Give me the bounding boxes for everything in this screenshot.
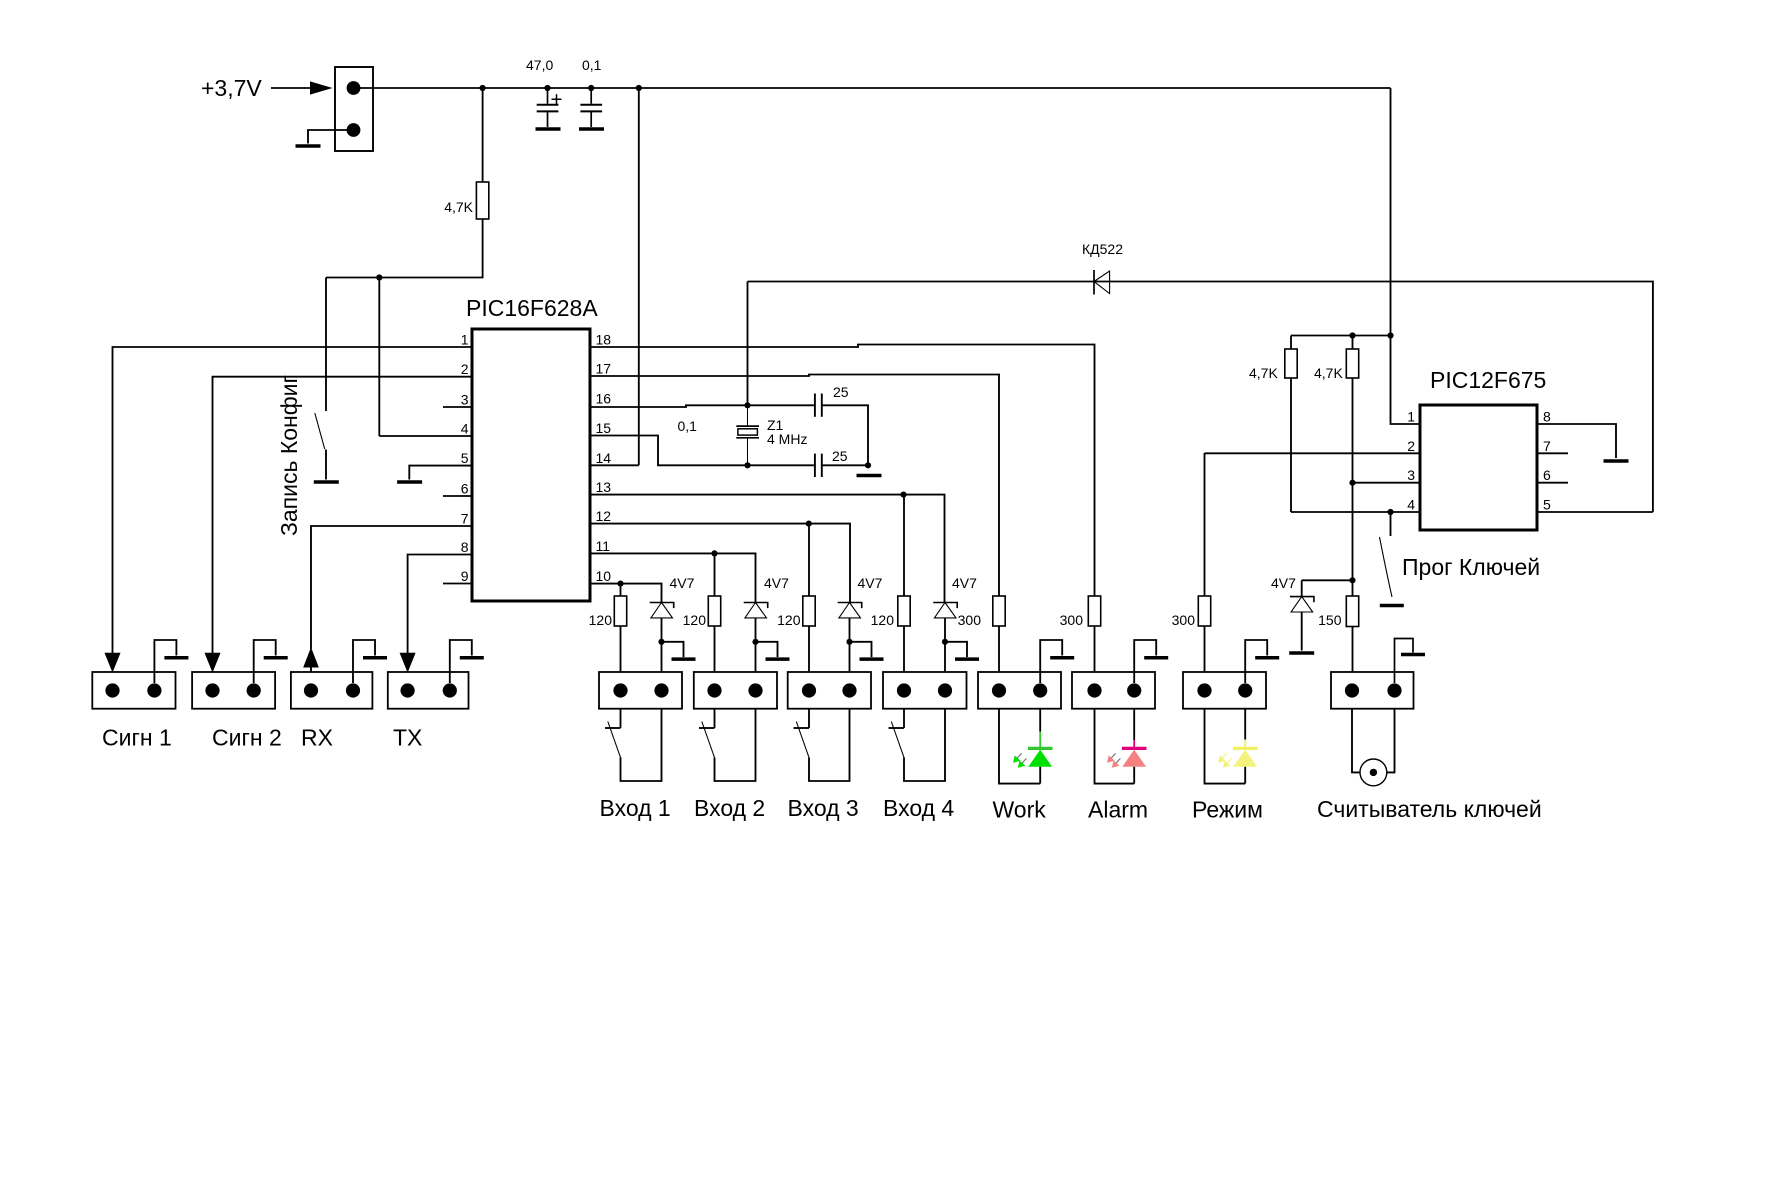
wire U1 pin4 to MCLR net <box>379 435 472 437</box>
wire R1 to MCLR net <box>326 219 483 278</box>
wire crystal net to U2 pin5 via diode <box>748 282 1653 513</box>
wire R2 to U2 pin4 line <box>1290 378 1292 512</box>
switch Вход 3 <box>794 709 850 782</box>
junction VDD / pullups <box>1387 332 1393 338</box>
wire U2 pin2 to Режим <box>1205 452 1421 454</box>
wire pullup top <box>1291 335 1391 337</box>
svg-text:5: 5 <box>1543 497 1551 513</box>
switch Вход 1 <box>605 709 662 782</box>
svg-text:4,7K: 4,7K <box>1249 365 1278 381</box>
wire U2 pin2 to Режим resistor <box>1204 453 1206 596</box>
svg-text:Work: Work <box>993 797 1047 823</box>
svg-text:300: 300 <box>958 612 982 628</box>
zener 4V7 Вход 3 <box>838 603 862 618</box>
switch Вход 2 <box>699 709 756 782</box>
wire U2 pin5 line <box>1537 511 1653 513</box>
svg-text:10: 10 <box>596 568 612 584</box>
wire arrow to Сигн1 pin <box>112 671 114 691</box>
arrow power input <box>310 81 333 94</box>
ground tap Считыватель <box>1395 639 1414 684</box>
wire bottom loop Work <box>999 709 1040 784</box>
wire connector to LED Work <box>1039 709 1041 732</box>
connector Режим <box>1183 672 1266 709</box>
svg-text:PIC12F675: PIC12F675 <box>1430 367 1546 393</box>
wire U1 pin11 to Вход2 <box>590 553 756 602</box>
ground zener reader <box>1289 651 1314 655</box>
wire reader right <box>1387 709 1395 773</box>
junction caps ground <box>865 462 871 468</box>
svg-text:+3,7V: +3,7V <box>201 75 262 101</box>
wire U1 pin12 to Вход3 <box>590 524 850 603</box>
svg-text:4,7K: 4,7K <box>1314 365 1343 381</box>
resistor 120 Вход 1 <box>614 596 626 626</box>
wire R3 to key net <box>1352 378 1354 580</box>
wire to R3 <box>1352 336 1354 350</box>
svg-text:14: 14 <box>596 450 612 466</box>
LED arrows Alarm <box>1107 753 1120 767</box>
connector Вход 1 <box>599 672 682 709</box>
connector Сигн 2 <box>192 672 275 709</box>
svg-text:0,1: 0,1 <box>678 418 698 434</box>
key reader contact <box>1360 759 1387 786</box>
LED Alarm <box>1122 740 1147 784</box>
wire arrow to RX pin <box>310 667 312 691</box>
LED arrows Work <box>1013 753 1026 767</box>
wire U1 pin14 VDD <box>590 464 639 466</box>
ground C1 <box>536 127 561 131</box>
svg-text:16: 16 <box>596 391 612 407</box>
wire pin to R120 Вход 3 <box>808 524 810 596</box>
resistor R1 4,7K <box>476 182 488 219</box>
wire R300 to connector Alarm <box>1094 626 1096 691</box>
svg-text:120: 120 <box>589 612 613 628</box>
junction rail / C2 <box>588 85 594 91</box>
wire connector to LED Alarm <box>1133 709 1135 741</box>
ground crystal caps <box>857 474 882 478</box>
capacitor C3 25 <box>815 394 822 417</box>
ground tap Вход 4 <box>945 642 967 657</box>
junction zener Вход 1 / ground tap <box>658 639 664 645</box>
connector Считыватель ключей <box>1331 672 1414 709</box>
svg-text:PIC16F628A: PIC16F628A <box>466 295 598 321</box>
LED arrows Режим <box>1218 753 1231 767</box>
wire R4 to reader connector <box>1352 627 1354 691</box>
connector Вход 2 <box>694 672 777 709</box>
svg-text:Вход 4: Вход 4 <box>883 795 954 821</box>
wire to switch Запись Конфиг <box>325 278 327 412</box>
svg-text:120: 120 <box>683 612 707 628</box>
svg-text:Alarm: Alarm <box>1088 797 1148 823</box>
connector Work <box>978 672 1061 709</box>
ground tap TX <box>450 640 472 683</box>
junction zener Вход 3 / ground tap <box>846 639 852 645</box>
wire U1 pin1 to Сигн1 <box>113 347 473 654</box>
svg-text:6: 6 <box>461 481 469 497</box>
svg-text:2: 2 <box>461 361 469 377</box>
wire R300 to connector Режим <box>1204 626 1206 691</box>
svg-text:13: 13 <box>596 479 612 495</box>
wire connector to LED Режим <box>1244 709 1246 740</box>
wire U1 pin16 to crystal <box>590 405 748 407</box>
svg-text:25: 25 <box>832 448 848 464</box>
junction U2 pin3 / R3 <box>1349 480 1355 486</box>
svg-text:4: 4 <box>461 421 469 437</box>
wire stub U1 pin6 <box>443 495 472 497</box>
connector Сигн 1 <box>92 672 175 709</box>
junction MCLR net <box>376 274 382 280</box>
wire zener to connector Вход 2 <box>755 618 757 691</box>
svg-text:Сигн 2: Сигн 2 <box>212 725 282 751</box>
connector Вход 3 <box>788 672 871 709</box>
zener 4V7 Вход 4 <box>933 603 957 618</box>
wire +3,7V to arrow <box>271 87 311 89</box>
wire crystal top to C3 <box>748 404 814 406</box>
svg-text:2: 2 <box>1407 438 1415 454</box>
ground tap RX <box>353 640 375 683</box>
svg-text:47,0: 47,0 <box>526 57 553 73</box>
wire R120 to connector Вход 3 <box>808 626 810 691</box>
wire stub U1 pin3 <box>443 406 472 408</box>
zener 4V7 reader <box>1290 597 1314 612</box>
resistor 120 Вход 3 <box>803 596 815 626</box>
arrow into Сигн1 <box>105 653 120 671</box>
svg-text:Вход 2: Вход 2 <box>694 795 765 821</box>
wire rail to R1 <box>482 88 484 182</box>
wire pin to R120 Вход 2 <box>714 553 716 596</box>
connector Alarm <box>1072 672 1155 709</box>
wire R300 to connector Work <box>998 626 1000 691</box>
svg-text:300: 300 <box>1060 612 1084 628</box>
wire C4 to ground leg <box>822 464 868 466</box>
wire R120 to connector Вход 4 <box>903 626 905 691</box>
ground tap Вход 1 <box>662 642 684 657</box>
wire U1 pin13 to Вход4 <box>590 495 945 603</box>
wire reader left <box>1352 709 1360 773</box>
junction zener Вход 4 / ground tap <box>942 639 948 645</box>
junction pin10 / R 120 Вход1 <box>617 581 623 587</box>
junction U2 pin4 / switch <box>1387 509 1393 515</box>
IC U1 PIC16F628A <box>472 329 590 601</box>
svg-text:5: 5 <box>461 450 469 466</box>
wire U1 pin2 to Сигн2 <box>213 377 473 654</box>
resistor 300 Alarm <box>1088 596 1100 626</box>
capacitor C2 0,1 <box>580 88 602 127</box>
wire U1 pin5 to ground <box>409 466 472 480</box>
wire U1 pin15 to crystal <box>590 436 748 466</box>
svg-text:Прог Ключей: Прог Ключей <box>1402 554 1540 580</box>
ground C2 <box>579 127 604 131</box>
junction rail / C1 <box>544 85 550 91</box>
svg-text:TX: TX <box>393 725 422 751</box>
junction pin12 / R 120 Вход3 <box>806 521 812 527</box>
wire U1 pin8 to TX <box>408 555 472 655</box>
zener 4V7 Вход 2 <box>744 603 768 618</box>
ground tap Вход 2 <box>756 642 778 657</box>
svg-text:17: 17 <box>596 361 612 377</box>
svg-text:300: 300 <box>1172 612 1196 628</box>
svg-text:1: 1 <box>1407 409 1415 425</box>
svg-text:Режим: Режим <box>1192 797 1263 823</box>
wire R120 to connector Вход 2 <box>714 626 716 691</box>
svg-text:7: 7 <box>1543 438 1551 454</box>
svg-text:1: 1 <box>461 332 469 348</box>
connector TX <box>388 672 469 709</box>
junction key net <box>1349 577 1355 583</box>
wire U1 pin17 to Work resistor <box>590 375 999 597</box>
svg-text:3: 3 <box>1407 467 1415 483</box>
svg-text:25: 25 <box>833 384 849 400</box>
svg-text:Вход 3: Вход 3 <box>788 795 859 821</box>
junction pin13 / R 120 Вход4 <box>900 492 906 498</box>
svg-text:8: 8 <box>461 539 469 555</box>
svg-text:8: 8 <box>1543 409 1551 425</box>
resistor R2 4,7K <box>1285 349 1297 378</box>
switch SB2 Прог Ключей <box>1380 537 1393 597</box>
resistor 300 Work <box>993 596 1005 626</box>
wire U1 pin18 to Alarm resistor <box>590 345 1095 597</box>
svg-text:RX: RX <box>301 725 333 751</box>
resistor 120 Вход 4 <box>898 596 910 626</box>
ground tap Сигн2 <box>254 640 276 683</box>
wire +3,7V rail <box>354 87 1391 89</box>
wire zener to connector Вход 1 <box>661 618 663 691</box>
ground switch SB2 <box>1380 604 1404 608</box>
wire pin4 to switch Прог Ключей <box>1390 512 1392 536</box>
ground tap Сигн1 <box>154 640 176 683</box>
connector X1 power <box>335 67 373 151</box>
wire key net to R4 <box>1352 580 1354 596</box>
wire U2 pin8 to ground <box>1537 424 1616 458</box>
junction crystal top <box>744 402 750 408</box>
wire power pin2 to ground <box>308 130 354 144</box>
svg-text:4V7: 4V7 <box>1271 575 1296 591</box>
svg-text:120: 120 <box>777 612 801 628</box>
svg-text:Вход 1: Вход 1 <box>600 795 671 821</box>
svg-text:4V7: 4V7 <box>670 575 695 591</box>
resistor 120 Вход 2 <box>708 596 720 626</box>
svg-text:Считыватель ключей: Считыватель ключей <box>1317 796 1542 822</box>
wire bottom loop Режим <box>1205 709 1246 784</box>
junction rail / R1 <box>480 85 486 91</box>
wire R120 to connector Вход 1 <box>620 626 622 691</box>
wire stub U1 pin9 <box>443 583 472 585</box>
svg-text:4V7: 4V7 <box>764 575 789 591</box>
ground power connector <box>296 144 321 148</box>
svg-text:7: 7 <box>461 511 469 527</box>
switch SB1 Запись Конфиг <box>315 413 325 449</box>
LED Режим <box>1233 740 1258 784</box>
wire zener reader to ground <box>1301 612 1303 651</box>
svg-text:120: 120 <box>871 612 895 628</box>
junction pullup top <box>1349 332 1355 338</box>
ground U2 pin8 <box>1604 459 1629 463</box>
wire key net to zener <box>1302 579 1353 581</box>
resistor R4 150 <box>1346 596 1358 627</box>
wire U1 pin10 to Вход1 <box>590 584 662 603</box>
junction crystal bottom <box>744 462 750 468</box>
resistor R3 4,7K <box>1346 349 1358 378</box>
wire zener to connector Вход 3 <box>849 618 851 691</box>
resistor 300 Режим <box>1198 596 1210 626</box>
svg-text:0,1: 0,1 <box>582 57 602 73</box>
ground tap Alarm <box>1134 640 1156 683</box>
svg-text:4V7: 4V7 <box>858 575 883 591</box>
wire crystal net to diode line <box>747 282 749 406</box>
svg-text:КД522: КД522 <box>1082 241 1123 257</box>
wire +3,7V rail to U2 pin1 <box>1391 88 1421 424</box>
wire bottom loop Alarm <box>1095 709 1135 784</box>
crystal Z1 4 MHz <box>736 405 759 465</box>
IC U2 PIC12F675 <box>1420 405 1537 530</box>
capacitor C1 47,0 <box>537 88 562 127</box>
arrow into TX <box>400 653 415 671</box>
wire crystal bottom to C4 <box>748 464 814 466</box>
wire C3 to ground leg <box>822 405 868 465</box>
junction pin11 / R 120 Вход2 <box>711 550 717 556</box>
svg-text:3: 3 <box>461 392 469 408</box>
ground switch SB1 <box>314 480 339 484</box>
junction zener Вход 2 / ground tap <box>752 639 758 645</box>
wire stub U2 pin6 <box>1537 482 1568 484</box>
svg-text:4,7K: 4,7K <box>444 199 473 215</box>
svg-text:11: 11 <box>596 538 611 554</box>
svg-text:Запись Конфиг: Запись Конфиг <box>276 375 302 536</box>
LED Work <box>1028 732 1053 784</box>
wire pin to R120 Вход 1 <box>620 584 622 596</box>
wire MCLR net to pin 4 <box>378 278 380 437</box>
svg-text:150: 150 <box>1318 612 1342 628</box>
svg-text:6: 6 <box>1543 467 1551 483</box>
svg-text:9: 9 <box>461 568 469 584</box>
wire U2 pin3 <box>1353 482 1421 484</box>
svg-text:18: 18 <box>596 332 612 348</box>
capacitor C4 25 <box>815 454 822 477</box>
wire pin to R120 Вход 4 <box>903 495 905 596</box>
arrow into Сигн2 <box>205 653 220 671</box>
ground tap Режим <box>1245 640 1267 683</box>
wire to zener reader <box>1301 580 1303 596</box>
svg-text:4V7: 4V7 <box>952 575 977 591</box>
arrow out of RX <box>304 649 318 667</box>
wire zener to connector Вход 4 <box>944 618 946 691</box>
wire arrow to TX pin <box>407 671 409 691</box>
svg-text:4 MHz: 4 MHz <box>767 431 807 447</box>
diode VD1 КД522 <box>1094 270 1110 295</box>
junction rail / VDD drop <box>636 85 642 91</box>
svg-text:Сигн 1: Сигн 1 <box>102 725 172 751</box>
zener 4V7 Вход 1 <box>650 603 674 618</box>
wire stub U2 pin7 <box>1537 452 1568 454</box>
connector Вход 4 <box>883 672 967 709</box>
svg-text:4: 4 <box>1407 497 1415 513</box>
wire to R2 <box>1290 336 1292 350</box>
svg-text:12: 12 <box>596 508 612 524</box>
ground tap Work <box>1040 640 1062 683</box>
connector RX <box>291 672 373 709</box>
svg-text:15: 15 <box>596 420 612 436</box>
ground tap Вход 3 <box>850 642 872 657</box>
wire arrow to Сигн2 pin <box>212 671 214 691</box>
wire U1 pin7 to RX <box>311 526 472 649</box>
wire switch to ground <box>325 450 327 480</box>
ground U1 pin5 <box>397 480 422 484</box>
switch Вход 4 <box>889 709 946 782</box>
wire U2 pin4 line <box>1291 511 1420 513</box>
wire VDD drop to pin14 <box>638 88 640 465</box>
